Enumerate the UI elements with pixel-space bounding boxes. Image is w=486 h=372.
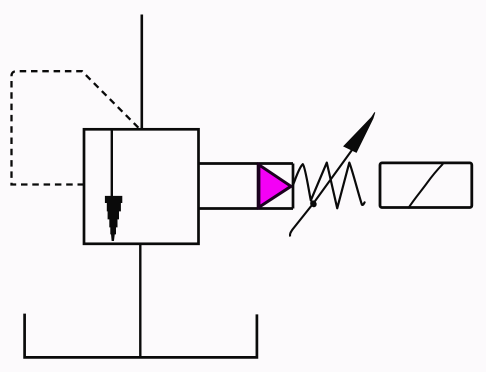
wire: tank return line (vertical to tank) — [139, 244, 141, 357]
node: triangle base line (vertical divider in solenoid) — [257, 163, 260, 210]
adjustment arrow head (filled) — [344, 112, 375, 152]
wire: pressure inlet line P (top vertical) — [141, 15, 144, 130]
wire: pilot control line (dashed) from valve to left loop — [12, 71, 139, 184]
junction blob on arrow shaft — [309, 199, 318, 208]
tank symbol T — [25, 314, 257, 358]
valve body V1 (main square envelope) — [84, 129, 199, 244]
amplifier box U1 (rectangle with diagonal ramp) — [380, 163, 472, 208]
proportional solenoid triangle (magenta) — [259, 165, 291, 207]
flow arrow (stepped black arrowhead pointing down inside valve) — [105, 196, 122, 240]
adjustment arrow shaft (diagonal through spring) — [290, 150, 352, 237]
spring (zigzag) — [293, 163, 365, 209]
wire: internal flow path (vertical line inside valve) — [111, 130, 113, 199]
solenoid housing (rectangle attached to valve right side) — [199, 164, 294, 209]
diagonal ramp line inside amplifier box — [408, 164, 443, 209]
